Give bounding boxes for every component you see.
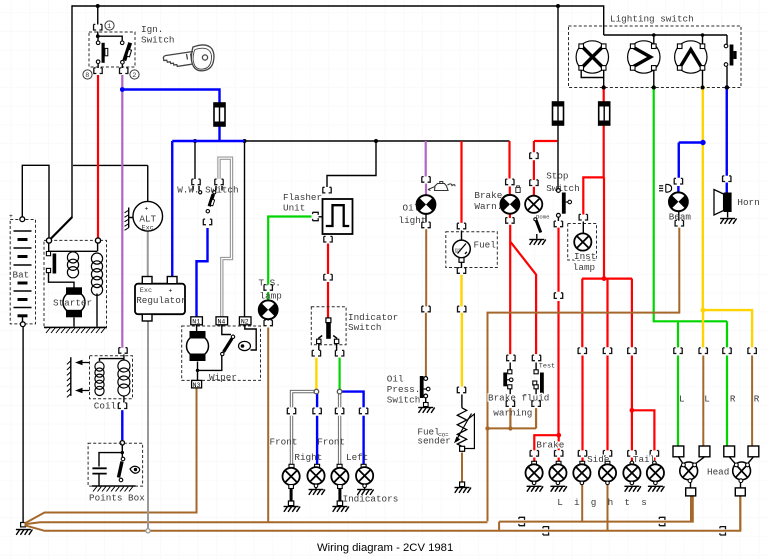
svg-text:L: L: [557, 497, 563, 508]
svg-text:s: s: [641, 497, 647, 508]
svg-text:t: t: [624, 497, 630, 508]
svg-text:Left: Left: [346, 452, 368, 463]
svg-text:+: +: [9, 213, 13, 220]
svg-text:L: L: [679, 393, 685, 404]
svg-text:Lighting switch: Lighting switch: [610, 14, 694, 25]
svg-text:g: g: [591, 497, 597, 508]
svg-text:Switch: Switch: [387, 394, 420, 405]
svg-text:Switch: Switch: [546, 183, 579, 194]
svg-text:Wiper: Wiper: [209, 372, 237, 383]
svg-text:Brake: Brake: [474, 190, 502, 201]
svg-text:L: L: [704, 393, 710, 404]
svg-text:N4: N4: [218, 318, 226, 325]
svg-text:warning: warning: [493, 408, 532, 419]
svg-text:R: R: [730, 393, 736, 404]
svg-text:Dome: Dome: [536, 213, 549, 220]
svg-text:Switch: Switch: [348, 322, 381, 333]
svg-text:Wiring diagram - 2CV 1981: Wiring diagram - 2CV 1981: [317, 542, 453, 554]
svg-text:i: i: [574, 497, 580, 508]
svg-text:Front: Front: [270, 436, 298, 447]
svg-text:2: 2: [132, 72, 136, 80]
svg-text:+: +: [169, 288, 173, 295]
svg-text:Warn.: Warn.: [474, 201, 502, 212]
svg-text:Front: Front: [317, 436, 345, 447]
svg-text:=O=: =O=: [438, 432, 449, 439]
svg-text:1: 1: [107, 23, 111, 31]
svg-text:Starter: Starter: [53, 298, 92, 309]
svg-text:Indicators: Indicators: [343, 494, 399, 505]
svg-text:Horn: Horn: [737, 197, 759, 208]
svg-text:Test: Test: [539, 363, 555, 371]
svg-text:gs: gs: [455, 247, 462, 254]
svg-text:Fuel: Fuel: [474, 240, 497, 251]
svg-text:N3: N3: [193, 382, 201, 389]
svg-text:Bat: Bat: [13, 270, 30, 281]
svg-text:Switch: Switch: [141, 34, 174, 45]
svg-text:Exc: Exc: [142, 225, 154, 233]
svg-text:Oil: Oil: [387, 374, 404, 385]
svg-text:Beam: Beam: [669, 211, 692, 222]
svg-text:Head: Head: [707, 467, 729, 478]
svg-text:W.W. Switch: W.W. Switch: [177, 184, 238, 195]
svg-text:Exc: Exc: [140, 287, 152, 295]
svg-text:Points Box: Points Box: [89, 493, 145, 504]
svg-text:Stop: Stop: [546, 171, 568, 182]
svg-text:h: h: [608, 497, 614, 508]
svg-text:Coil: Coil: [94, 401, 117, 412]
svg-text:Regulator: Regulator: [136, 295, 186, 306]
svg-text:lamp: lamp: [573, 262, 595, 273]
svg-text:R: R: [754, 393, 760, 404]
svg-text:T.S.: T.S.: [259, 278, 281, 289]
svg-text:N1: N1: [192, 318, 200, 325]
svg-text:Brake: Brake: [536, 439, 564, 450]
svg-text:N2: N2: [241, 318, 249, 325]
svg-text:+: +: [145, 206, 149, 213]
svg-text:ALT: ALT: [139, 214, 156, 225]
svg-text:Unit: Unit: [283, 202, 305, 213]
svg-text:Right: Right: [294, 452, 322, 463]
svg-text:8: 8: [85, 72, 89, 80]
svg-text:Flasher: Flasher: [283, 192, 322, 203]
svg-text:Press.: Press.: [387, 384, 420, 395]
svg-text:Inst: Inst: [574, 251, 596, 262]
